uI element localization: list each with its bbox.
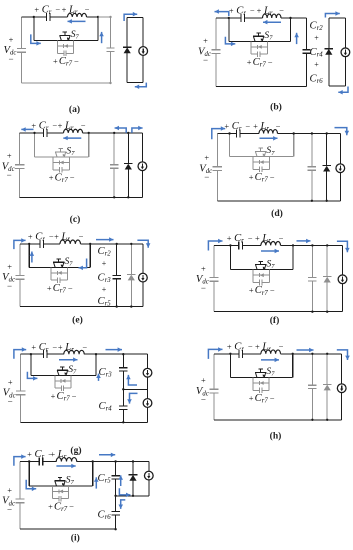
svg-text:−: − [75, 450, 80, 459]
svg-text:+: + [58, 343, 63, 352]
svg-text:+: + [9, 35, 14, 44]
svg-text:+: + [28, 233, 33, 242]
svg-text:−: − [74, 57, 79, 66]
svg-text:−: − [201, 395, 206, 405]
svg-text:−: − [7, 281, 12, 291]
svg-text:−: − [245, 122, 250, 131]
svg-text:−: − [69, 502, 74, 511]
svg-text:+: + [54, 233, 59, 242]
svg-text:−: − [203, 55, 208, 65]
svg-text:(h): (h) [270, 431, 282, 442]
svg-text:−: − [70, 174, 75, 183]
svg-text:+: + [249, 286, 254, 295]
svg-text:(a): (a) [69, 104, 80, 115]
svg-text:+: + [247, 58, 252, 67]
svg-text:+: + [7, 486, 12, 495]
svg-text:−: − [279, 7, 284, 16]
svg-text:+: + [58, 122, 63, 131]
svg-text:+: + [249, 173, 254, 182]
svg-text:−: − [279, 342, 284, 351]
svg-text:+: + [49, 174, 54, 183]
svg-text:+: + [27, 450, 32, 459]
svg-text:+: + [224, 122, 229, 131]
svg-text:−: − [55, 6, 60, 15]
svg-text:+: + [7, 152, 12, 161]
svg-text:−: − [268, 58, 273, 67]
svg-text:+: + [51, 392, 56, 401]
svg-text:+: + [201, 264, 206, 273]
svg-text:+: + [204, 154, 209, 163]
svg-text:+: + [227, 342, 232, 351]
svg-text:+: + [229, 7, 234, 16]
svg-text:(f): (f) [270, 315, 280, 326]
svg-text:+: + [8, 378, 13, 387]
svg-text:−: − [7, 170, 12, 180]
svg-text:+: + [62, 6, 67, 15]
svg-text:+: + [47, 284, 52, 293]
svg-text:+: + [102, 285, 107, 294]
svg-text:−: − [72, 392, 77, 401]
svg-text:+: + [314, 34, 319, 43]
svg-text:+: + [48, 502, 53, 511]
svg-text:−: − [85, 6, 90, 15]
svg-text:+: + [102, 259, 107, 268]
svg-text:(e): (e) [72, 314, 83, 325]
svg-text:−: − [79, 233, 84, 242]
svg-text:+: + [34, 6, 39, 15]
svg-text:+: + [253, 122, 258, 131]
svg-text:+: + [31, 343, 36, 352]
svg-text:−: − [8, 54, 13, 64]
svg-text:+: + [227, 234, 232, 243]
svg-text:+: + [255, 234, 260, 243]
svg-text:+: + [255, 342, 260, 351]
svg-text:+: + [201, 376, 206, 385]
svg-text:+: + [203, 37, 208, 46]
svg-text:+: + [53, 57, 58, 66]
svg-text:−: − [52, 343, 57, 352]
svg-text:−: − [248, 234, 253, 243]
svg-text:−: − [81, 122, 86, 131]
svg-text:+: + [257, 7, 262, 16]
svg-text:(i): (i) [71, 533, 80, 544]
svg-text:−: − [201, 283, 206, 293]
svg-text:−: − [204, 172, 209, 182]
svg-text:−: − [248, 342, 253, 351]
svg-text:+: + [249, 394, 254, 403]
svg-text:(b): (b) [270, 102, 282, 113]
svg-text:+: + [50, 450, 55, 459]
svg-text:−: − [250, 7, 255, 16]
svg-text:−: − [68, 284, 73, 293]
svg-text:−: − [276, 122, 281, 131]
svg-text:−: − [82, 343, 87, 352]
svg-text:−: − [270, 394, 275, 403]
svg-text:−: − [270, 173, 275, 182]
svg-text:−: − [279, 234, 284, 243]
svg-text:−: − [270, 286, 275, 295]
svg-text:+: + [314, 60, 319, 69]
svg-text:−: − [7, 504, 12, 514]
svg-text:−: − [8, 396, 13, 406]
svg-text:(c): (c) [70, 214, 81, 225]
svg-text:(d): (d) [271, 208, 283, 219]
svg-text:+: + [7, 262, 12, 271]
